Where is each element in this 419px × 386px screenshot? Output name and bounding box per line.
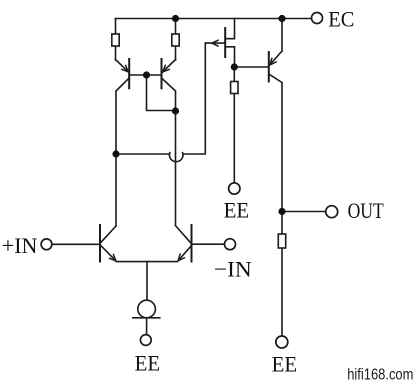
svg-text:EC: EC	[328, 7, 354, 32]
svg-text:EE: EE	[224, 198, 250, 223]
svg-text:EE: EE	[135, 351, 161, 376]
svg-text:hifi168.com: hifi168.com	[347, 366, 413, 384]
svg-text:+IN: +IN	[2, 233, 38, 258]
svg-text:OUT: OUT	[348, 199, 384, 223]
svg-text:EE: EE	[272, 352, 298, 377]
svg-text:−IN: −IN	[214, 257, 252, 281]
